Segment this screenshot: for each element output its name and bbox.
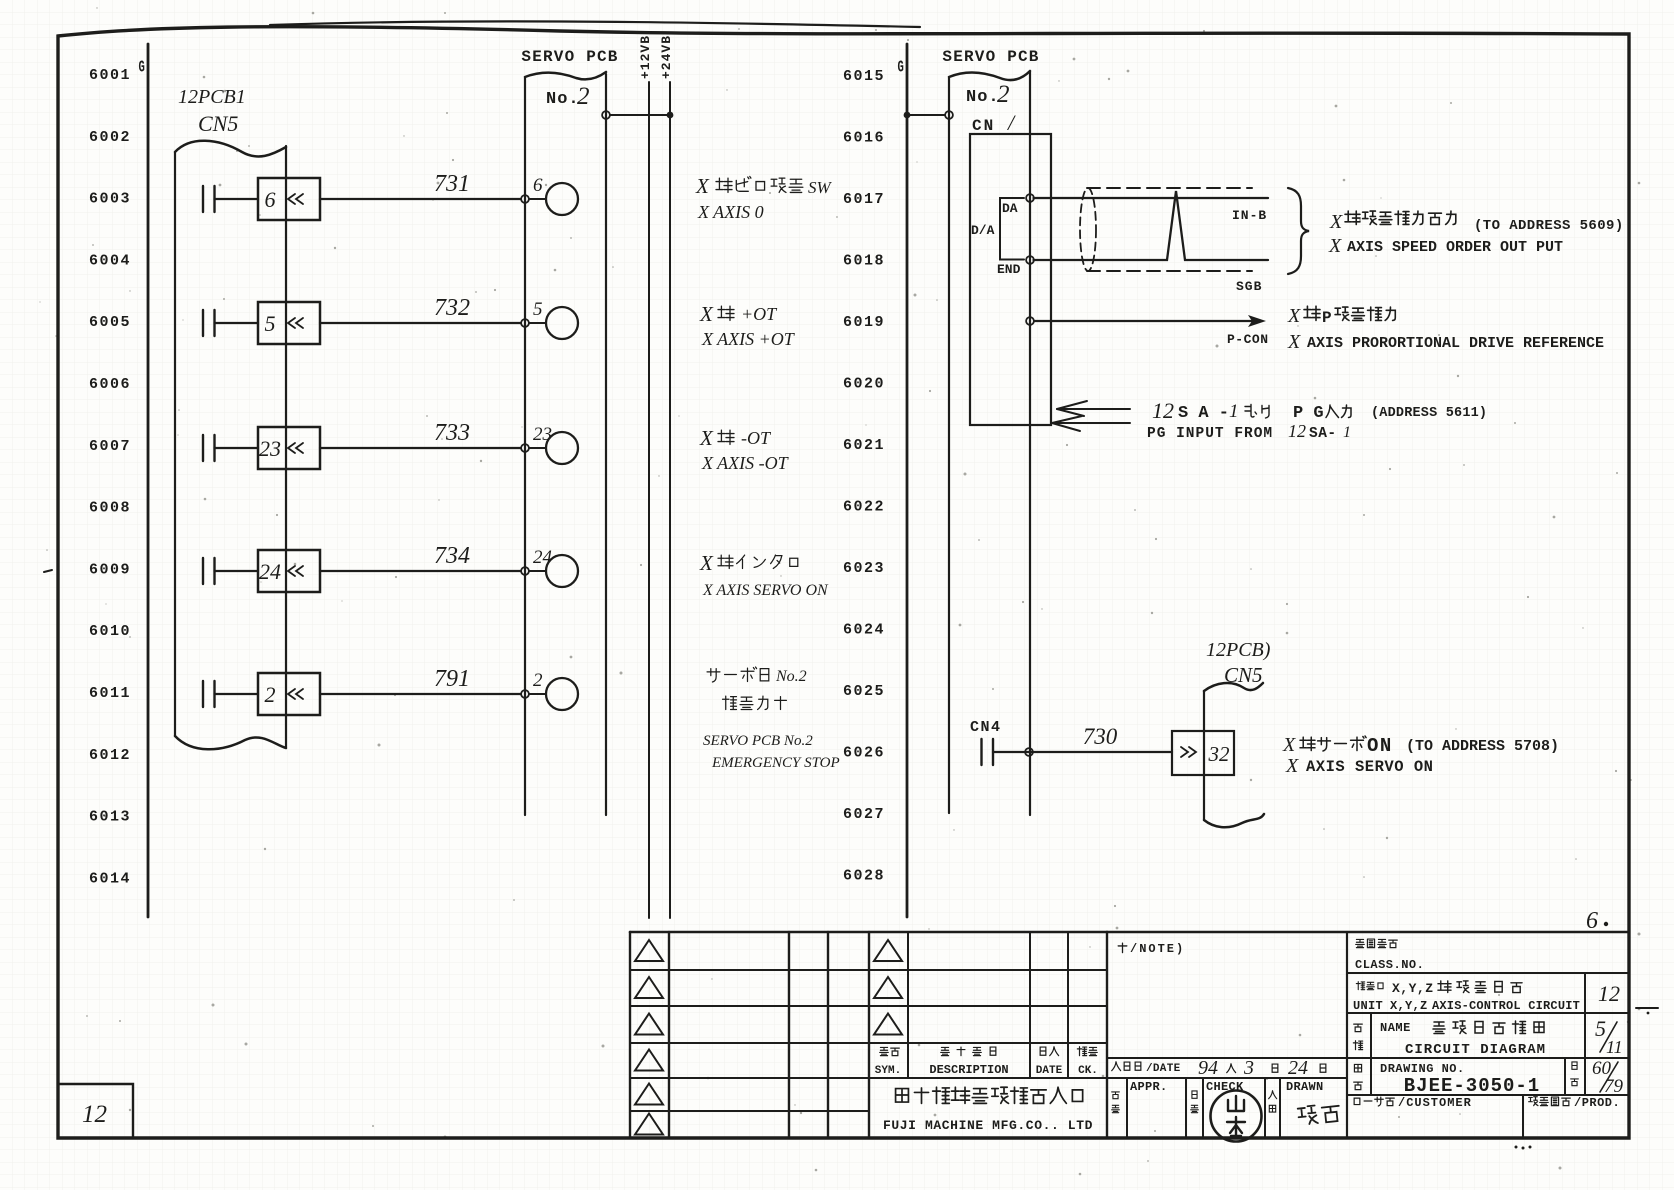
stray dash right of border xyxy=(1636,1007,1658,1009)
svg-text:6005: 6005 xyxy=(89,314,131,331)
svg-text:79: 79 xyxy=(1604,1076,1624,1097)
pin circle 23 xyxy=(546,432,578,464)
chevrons into connector xyxy=(288,566,303,576)
svg-text:6015: 6015 xyxy=(843,68,885,85)
wire P-CON with arrow xyxy=(1035,320,1257,322)
junction node pin 5 on servo pcb xyxy=(521,319,529,327)
terminal box pin 6 xyxy=(258,178,320,220)
svg-text:/PROD.: /PROD. xyxy=(1574,1096,1620,1110)
svg-text:5: 5 xyxy=(1595,1016,1606,1041)
svg-text:CLASS.NO.: CLASS.NO. xyxy=(1355,958,1424,972)
svg-text:24: 24 xyxy=(259,559,281,584)
svg-text:733: 733 xyxy=(434,420,470,446)
wire DA / IN-B xyxy=(1034,197,1269,199)
svg-text:(TO ADDRESS 5609): (TO ADDRESS 5609) xyxy=(1474,218,1624,234)
svg-text:6024: 6024 xyxy=(843,622,885,639)
svg-text:6020: 6020 xyxy=(843,376,885,393)
+12VB supply line xyxy=(648,82,650,918)
svg-text:X,Y,Z: X,Y,Z xyxy=(1390,999,1428,1013)
svg-text:6021: 6021 xyxy=(843,437,885,454)
terminal box 32 xyxy=(1172,731,1234,775)
svg-text:791: 791 xyxy=(434,666,470,692)
svg-text:P: P xyxy=(1322,309,1332,327)
junction node pin 24 on servo pcb xyxy=(521,567,529,575)
connector CN1 box xyxy=(970,134,1051,425)
svg-text:SERVO PCB No.2: SERVO PCB No.2 xyxy=(703,733,813,749)
wire contact to terminal box 791 xyxy=(215,693,259,695)
svg-text:X AXIS 0: X AXIS 0 xyxy=(697,202,764,222)
svg-text:734: 734 xyxy=(434,543,470,569)
pin circle 2 xyxy=(546,678,578,710)
svg-text:SERVO PCB: SERVO PCB xyxy=(942,48,1039,66)
svg-text:6023: 6023 xyxy=(843,560,885,577)
svg-text:SERVO PCB: SERVO PCB xyxy=(521,48,618,66)
svg-text:X AXIS SERVO ON: X AXIS SERVO ON xyxy=(702,582,829,599)
svg-text:5: 5 xyxy=(265,311,276,336)
svg-text:6019: 6019 xyxy=(843,314,885,331)
revision triangle xyxy=(635,940,663,961)
contact (capacitor-style pins) row 732 xyxy=(203,310,215,336)
junction node on servo line xyxy=(1025,748,1033,756)
svg-text:11: 11 xyxy=(1606,1037,1623,1057)
svg-text:94: 94 xyxy=(1198,1057,1218,1079)
svg-text:24: 24 xyxy=(533,547,553,568)
svg-text:6004: 6004 xyxy=(89,252,131,269)
svg-text:1: 1 xyxy=(1229,401,1239,422)
D/A converter bracket xyxy=(1000,198,1024,260)
unit name row xyxy=(1356,982,1383,990)
wire contact to terminal box 732 xyxy=(215,322,259,324)
svg-text:+12VB: +12VB xyxy=(638,35,653,79)
svg-text:No.: No. xyxy=(546,90,580,109)
revision triangle xyxy=(874,940,902,961)
svg-text:2: 2 xyxy=(533,670,543,691)
svg-text:X: X xyxy=(1287,331,1301,353)
pin circle 24 xyxy=(546,555,578,587)
terminal box pin 24 xyxy=(258,550,320,592)
svg-text:X AXIS +OT: X AXIS +OT xyxy=(701,329,796,349)
svg-text:6016: 6016 xyxy=(843,130,885,147)
node: left servo +24VB tie xyxy=(602,111,610,119)
svg-text:+OT: +OT xyxy=(741,304,778,324)
svg-text:32: 32 xyxy=(1208,742,1231,766)
svg-text:FUJI MACHINE MFG.CO.. LTD: FUJI MACHINE MFG.CO.. LTD xyxy=(883,1118,1093,1133)
name row xyxy=(1354,1024,1363,1031)
junction node pin 2 on servo pcb xyxy=(521,690,529,698)
wire contact to terminal box 733 xyxy=(215,447,259,449)
svg-text:X: X xyxy=(699,426,714,450)
right bus rail G xyxy=(906,44,909,917)
wire junction to pin circle xyxy=(530,447,547,449)
svg-text:P-CON: P-CON xyxy=(1227,332,1269,347)
svg-text:AXIS SERVO ON: AXIS SERVO ON xyxy=(1306,758,1433,776)
svg-text:BJEE-3050-1: BJEE-3050-1 xyxy=(1404,1075,1540,1097)
svg-text:+24VB: +24VB xyxy=(659,35,674,79)
svg-text:24: 24 xyxy=(1288,1057,1308,1079)
svg-text:DATE: DATE xyxy=(1036,1065,1063,1077)
+24VB supply line xyxy=(669,82,671,918)
chevrons into connector xyxy=(288,689,303,699)
wire contact to terminal box 731 xyxy=(215,198,259,200)
svg-text:12: 12 xyxy=(1288,421,1306,441)
svg-text:3: 3 xyxy=(1243,1057,1254,1079)
svg-text:6014: 6014 xyxy=(89,870,131,887)
drawing no row xyxy=(1354,1064,1361,1071)
svg-text:D/A: D/A xyxy=(971,223,995,238)
pin node END xyxy=(1026,256,1034,264)
svg-text:CN5: CN5 xyxy=(198,111,238,136)
svg-text:X: X xyxy=(1285,755,1299,777)
svg-text:730: 730 xyxy=(1083,724,1118,749)
wire to +24VB xyxy=(611,114,671,116)
svg-text:S A -: S A - xyxy=(1178,404,1229,423)
servo pcb no.2 (right) body xyxy=(948,78,950,813)
border top double-stroke xyxy=(270,21,920,27)
left bus rail G xyxy=(147,44,150,917)
revision triangle xyxy=(635,1114,663,1135)
svg-text:CK.: CK. xyxy=(1078,1065,1098,1077)
svg-text:12PCB): 12PCB) xyxy=(1206,639,1271,661)
svg-text:X: X xyxy=(1282,734,1296,756)
svg-text:6002: 6002 xyxy=(89,129,131,146)
svg-text:AXIS-CONTROL CIRCUIT: AXIS-CONTROL CIRCUIT xyxy=(1432,999,1580,1013)
svg-text:6011: 6011 xyxy=(89,685,131,702)
svg-text:6: 6 xyxy=(1586,908,1598,934)
wire junction to pin circle xyxy=(530,198,547,200)
revision triangle xyxy=(635,977,663,998)
wire contact to terminal box 734 xyxy=(215,570,259,572)
contact (capacitor-style pins) row 733 xyxy=(203,435,215,461)
svg-text:X: X xyxy=(1287,305,1301,327)
contact (capacitor-style pins) row 734 xyxy=(203,558,215,584)
wire junction to pin circle xyxy=(530,322,547,324)
PG input arrows xyxy=(1057,408,1130,410)
annotation: servo pcb no.2 emergency stop xyxy=(707,667,769,682)
svg-text:SGB: SGB xyxy=(1236,279,1262,294)
svg-text:No.: No. xyxy=(966,88,1000,107)
svg-text:G: G xyxy=(898,58,904,77)
svg-text:CN4: CN4 xyxy=(970,719,1002,736)
svg-text:SYM.: SYM. xyxy=(875,1065,901,1077)
svg-text:12: 12 xyxy=(82,1101,107,1128)
wire 732 xyxy=(320,322,521,324)
svg-text:AXIS SPEED ORDER OUT PUT: AXIS SPEED ORDER OUT PUT xyxy=(1347,239,1563,256)
svg-text:6027: 6027 xyxy=(843,806,885,823)
svg-text:CIRCUIT DIAGRAM: CIRCUIT DIAGRAM xyxy=(1405,1042,1546,1058)
svg-text:SA-: SA- xyxy=(1309,426,1337,442)
svg-text:EMERGENCY STOP: EMERGENCY STOP xyxy=(711,755,840,771)
date row xyxy=(1112,1062,1141,1071)
terminal box pin 2 xyxy=(258,673,320,715)
svg-text:6: 6 xyxy=(533,175,543,196)
svg-text:X,Y,Z: X,Y,Z xyxy=(1392,981,1434,996)
title block: revision table xyxy=(630,931,1107,934)
svg-text:/NOTE): /NOTE) xyxy=(1130,942,1185,956)
wire 731 xyxy=(320,198,521,200)
svg-text:2: 2 xyxy=(997,81,1010,108)
contact (capacitor-style pins) row 791 xyxy=(203,681,215,707)
svg-text:12: 12 xyxy=(1152,398,1174,423)
shielded cable dashed sheath xyxy=(1080,188,1096,271)
svg-text:DRAWN: DRAWN xyxy=(1286,1080,1324,1094)
svg-text:6007: 6007 xyxy=(89,438,131,455)
svg-text:END: END xyxy=(997,262,1021,277)
terminal box pin 23 xyxy=(258,427,320,469)
class no xyxy=(1356,939,1398,948)
stray dots bottom right xyxy=(1515,1146,1518,1149)
svg-text:6017: 6017 xyxy=(843,191,885,208)
svg-text:(TO ADDRESS 5708): (TO ADDRESS 5708) xyxy=(1406,738,1559,755)
wire junction to pin circle xyxy=(530,693,547,695)
chevrons into connector xyxy=(288,318,303,328)
svg-text:X: X xyxy=(699,302,714,326)
svg-text:6022: 6022 xyxy=(843,499,885,516)
node: right servo rail tie xyxy=(904,112,911,119)
svg-text:6010: 6010 xyxy=(89,623,131,640)
svg-text:6026: 6026 xyxy=(843,745,885,762)
svg-text:6028: 6028 xyxy=(843,868,885,885)
svg-text:DRAWING NO.: DRAWING NO. xyxy=(1380,1062,1465,1076)
pin circle 5 xyxy=(546,307,578,339)
pin node DA xyxy=(1026,194,1034,202)
svg-text:731: 731 xyxy=(434,171,470,197)
svg-text:AXIS PRORORTIONAL DRIVE REFERE: AXIS PRORORTIONAL DRIVE REFERENCE xyxy=(1307,335,1604,352)
pin circle 6 xyxy=(546,183,578,215)
svg-text:X: X xyxy=(695,174,710,198)
right title grid xyxy=(1107,931,1629,934)
junction node pin 6 on servo pcb xyxy=(521,195,529,203)
svg-text:X AXIS -OT: X AXIS -OT xyxy=(701,453,790,473)
wire junction to pin circle xyxy=(530,570,547,572)
svg-text:6018: 6018 xyxy=(843,253,885,270)
svg-text:6001: 6001 xyxy=(89,67,131,84)
wire 733 xyxy=(320,447,521,449)
svg-text:12: 12 xyxy=(1598,981,1620,1006)
customer row xyxy=(1354,1097,1394,1106)
svg-text:UNIT: UNIT xyxy=(1353,999,1383,1013)
junction node pin 23 on servo pcb xyxy=(521,444,529,452)
company: Fuji Machine Mfg xyxy=(896,1087,1083,1103)
svg-text:23: 23 xyxy=(259,436,281,461)
revision triangle xyxy=(874,1014,902,1035)
chevrons into connector xyxy=(288,194,303,204)
signature Esaka xyxy=(1298,1103,1341,1125)
svg-text:APPR.: APPR. xyxy=(1130,1080,1168,1094)
svg-text:5: 5 xyxy=(533,299,543,320)
svg-text:1: 1 xyxy=(1343,424,1351,441)
svg-text:PG INPUT FROM: PG INPUT FROM xyxy=(1147,426,1273,442)
svg-text:12PCB1: 12PCB1 xyxy=(178,86,246,108)
svg-text:X: X xyxy=(1329,211,1343,233)
wire 730 xyxy=(993,751,1172,753)
svg-text:NAME: NAME xyxy=(1380,1021,1411,1035)
connector 12PCB1 CN5 body xyxy=(174,153,176,736)
svg-text:SW: SW xyxy=(808,178,833,197)
note box xyxy=(1118,943,1127,952)
svg-text:DESCRIPTION: DESCRIPTION xyxy=(929,1063,1008,1077)
revision triangle xyxy=(635,1084,663,1105)
svg-text:ON: ON xyxy=(1367,735,1393,757)
terminal box pin 5 xyxy=(258,302,320,344)
stray tick left margin xyxy=(44,570,52,572)
svg-text:6008: 6008 xyxy=(89,500,131,517)
svg-text:6013: 6013 xyxy=(89,809,131,826)
svg-text:6: 6 xyxy=(265,187,276,212)
svg-text:6012: 6012 xyxy=(89,747,131,764)
svg-text:(ADDRESS 5611): (ADDRESS 5611) xyxy=(1371,406,1487,421)
svg-text:X: X xyxy=(1328,235,1342,257)
hanko stamp Yamamoto xyxy=(1211,1091,1262,1142)
contact (capacitor-style pins) row 731 xyxy=(203,186,215,212)
wire 791 xyxy=(320,693,521,695)
svg-text:732: 732 xyxy=(434,295,470,321)
servo pcb no.2 (left) body xyxy=(524,78,526,815)
svg-text:IN-B: IN-B xyxy=(1232,208,1267,223)
wire 734 xyxy=(320,570,521,572)
chevrons into connector xyxy=(288,443,303,453)
svg-text:DA: DA xyxy=(1002,201,1018,216)
approval row xyxy=(1112,1092,1120,1099)
svg-text:6009: 6009 xyxy=(89,561,131,578)
svg-text:/CUSTOMER: /CUSTOMER xyxy=(1398,1096,1472,1110)
svg-text:6003: 6003 xyxy=(89,191,131,208)
revision triangle xyxy=(874,977,902,998)
svg-text:No.2: No.2 xyxy=(775,668,807,685)
svg-text:2: 2 xyxy=(265,682,276,707)
svg-text:2: 2 xyxy=(577,83,590,110)
revision triangle xyxy=(635,1014,663,1035)
svg-text:/DATE: /DATE xyxy=(1146,1063,1181,1075)
svg-text:-OT: -OT xyxy=(741,428,772,448)
svg-text:23: 23 xyxy=(533,424,552,445)
sheet box 12 (bottom left) xyxy=(58,1084,133,1138)
wire END / SGB with pulse xyxy=(1034,191,1269,260)
svg-text:G: G xyxy=(139,58,145,77)
pin node P-CON xyxy=(1026,317,1034,325)
svg-text:CN: CN xyxy=(972,117,995,135)
brace for speed order xyxy=(1288,188,1309,274)
contact CN4 xyxy=(982,739,994,765)
revision triangle xyxy=(635,1050,663,1071)
svg-text:6025: 6025 xyxy=(843,683,885,700)
svg-text:X: X xyxy=(699,551,714,575)
svg-text:6006: 6006 xyxy=(89,376,131,393)
header row: SYM / DESCRIPTION / DATE / CK xyxy=(880,1047,900,1055)
